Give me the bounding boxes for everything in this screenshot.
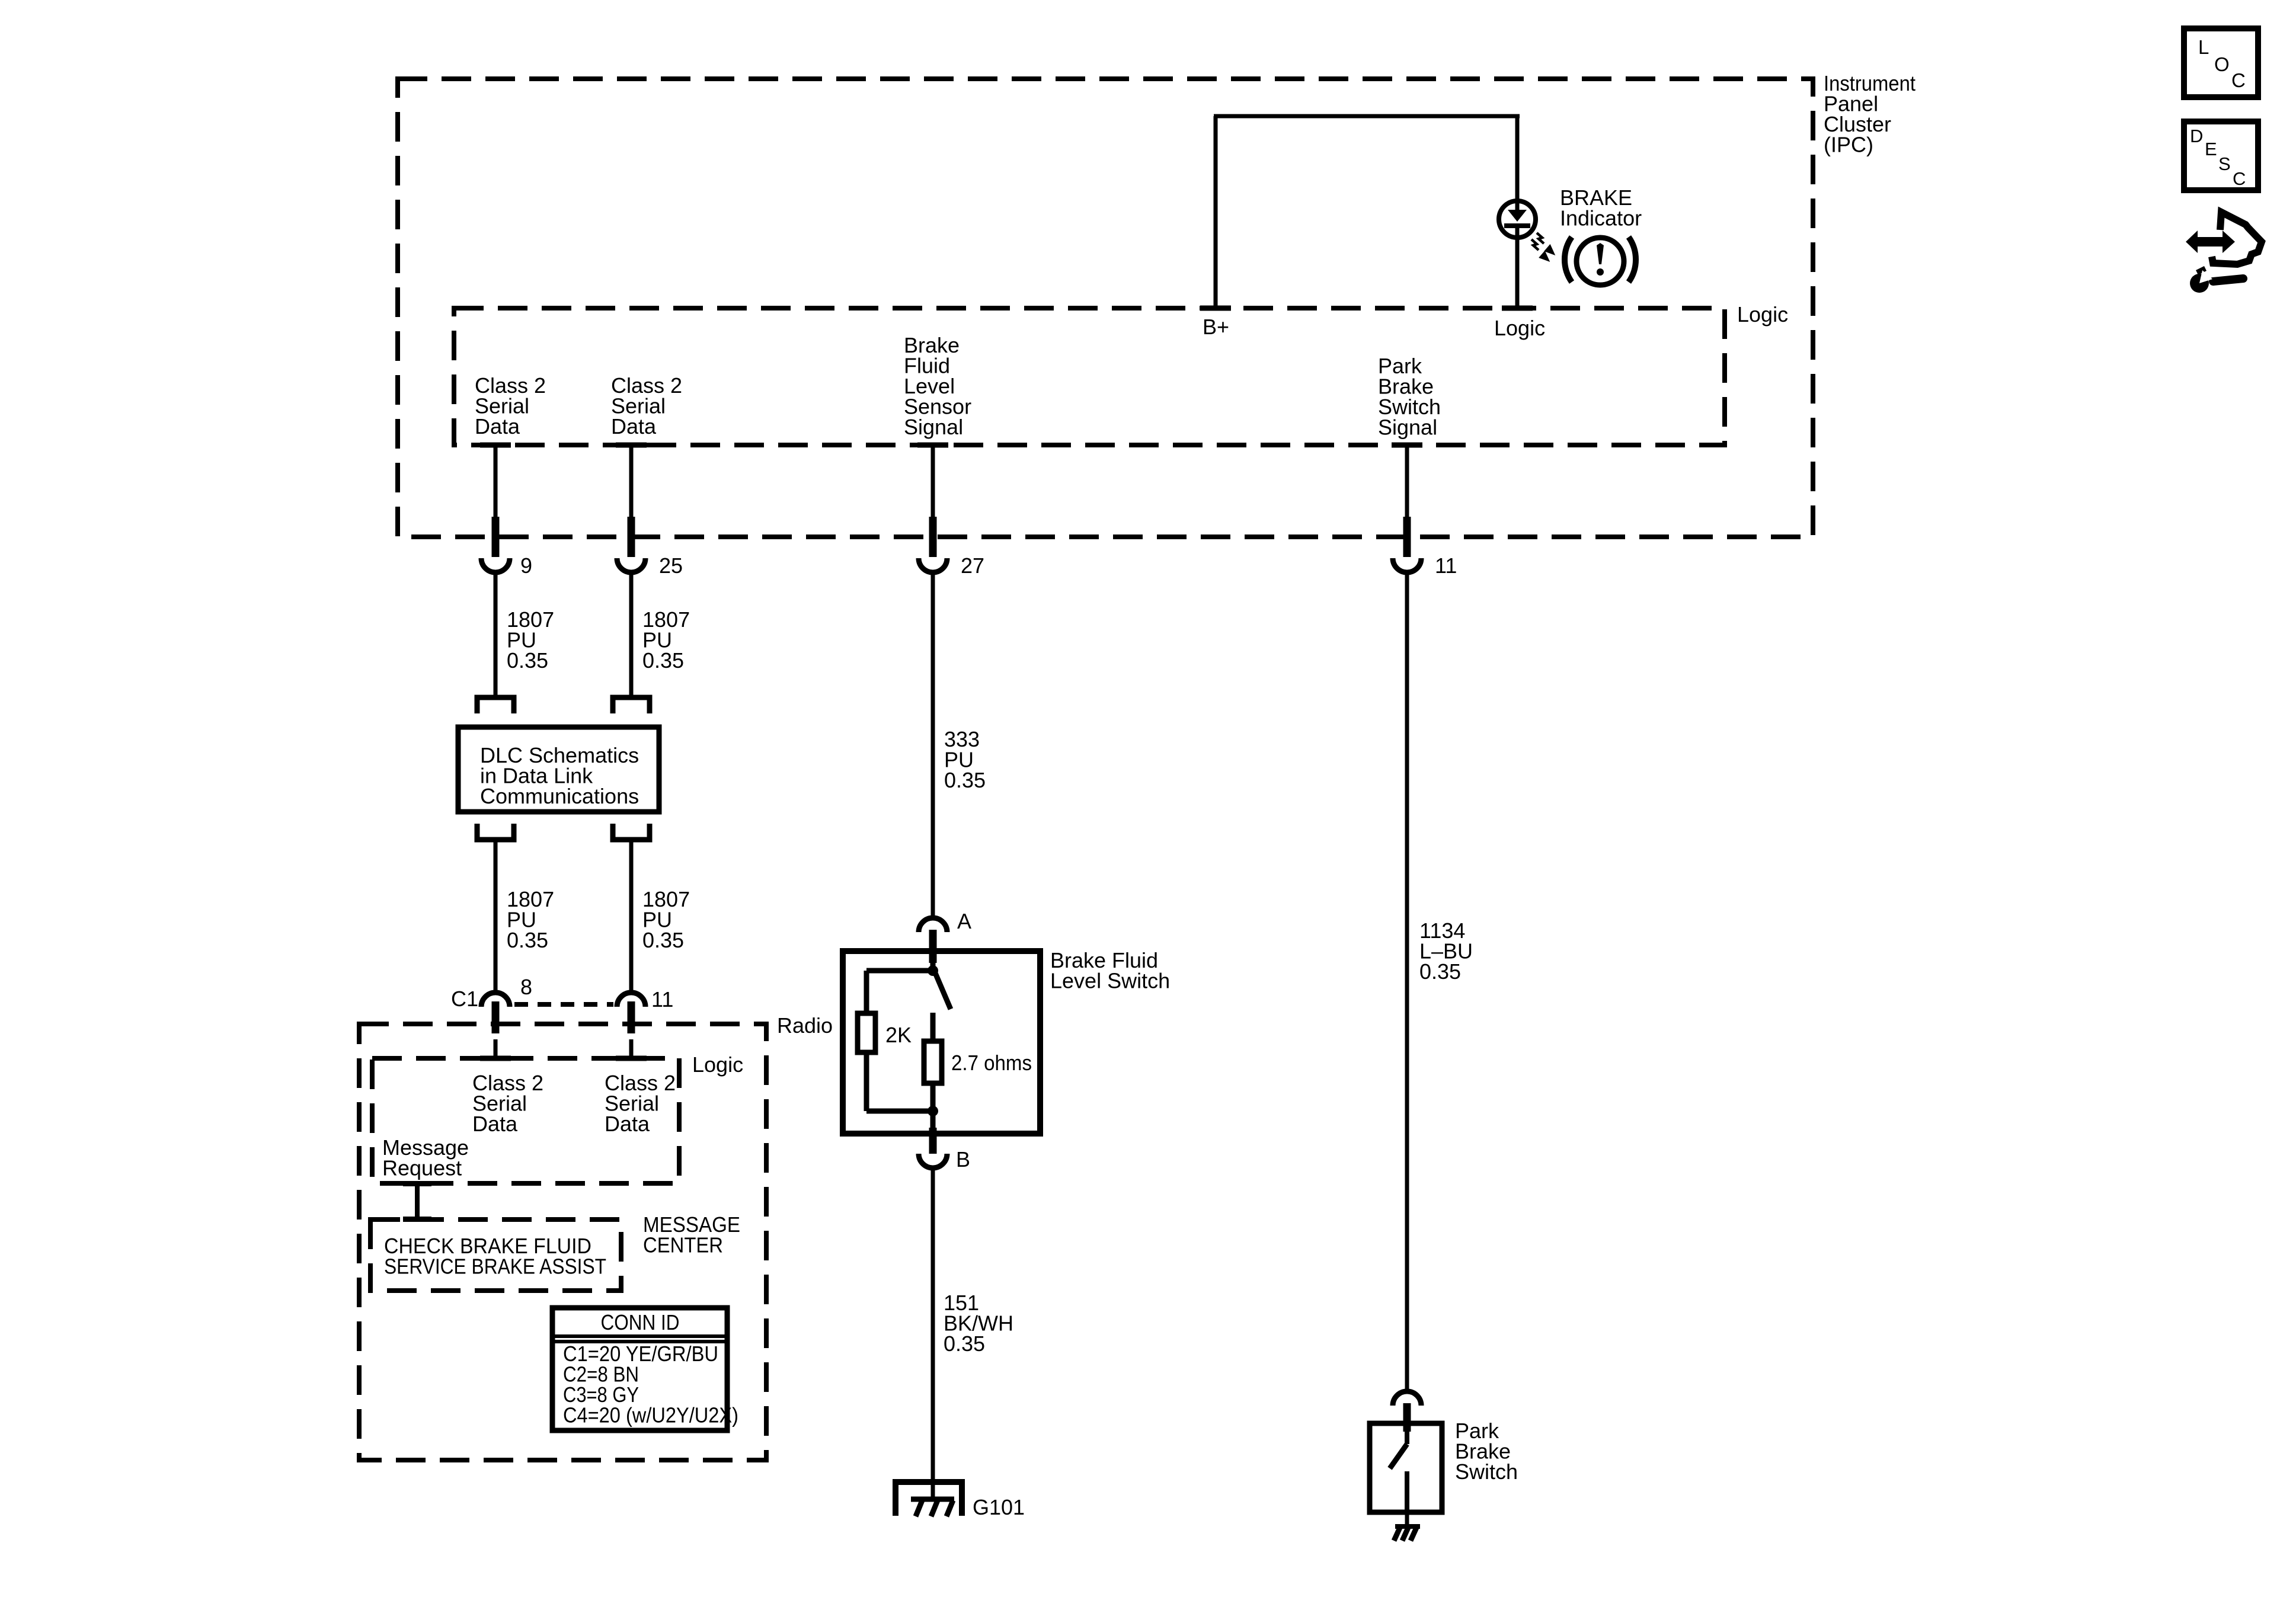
- wire: center branch lower: [930, 1083, 936, 1111]
- svg-text:11: 11: [651, 987, 673, 1012]
- wire: left branch below 2K: [864, 1052, 869, 1111]
- svg-text:E: E: [2205, 139, 2217, 159]
- svg-text:Communications: Communications: [480, 784, 639, 808]
- wire: indicator drop lower: [1515, 236, 1520, 308]
- label: 2K: [885, 1023, 912, 1047]
- stub: pin 8 into Radio: [492, 1001, 500, 1033]
- svg-text:C1: C1: [451, 987, 478, 1011]
- connector cup: IPC pin 25: [617, 558, 645, 572]
- svg-text:0.35: 0.35: [944, 768, 986, 792]
- svg-text:0.35: 0.35: [507, 928, 548, 952]
- svg-text:CENTER: CENTER: [643, 1233, 723, 1257]
- label: circuit 1807 PU 0.35 upper x=1065: [642, 607, 690, 673]
- connector staple below DLC x=836: [477, 824, 514, 840]
- wire: pin 11 inside radio: [629, 1039, 634, 1058]
- label: pin A: [957, 909, 971, 933]
- label: 2.7 ohms: [951, 1051, 1032, 1075]
- resistor 2K: [858, 1013, 875, 1052]
- DLC Schematics reference box: [458, 727, 659, 812]
- connector arch: radio C1 pin 11: [617, 993, 645, 1007]
- svg-text:2K: 2K: [885, 1023, 912, 1047]
- svg-text:Data: Data: [605, 1112, 650, 1136]
- label: Class 2 Serial Data (radio left): [472, 1071, 543, 1136]
- wire: 1807 PU lower segment x=1065: [629, 840, 634, 991]
- svg-text:0.35: 0.35: [642, 928, 684, 952]
- label: BRAKE Indicator: [1560, 185, 1642, 231]
- svg-text:D: D: [2190, 126, 2203, 146]
- svg-text:A: A: [957, 909, 971, 933]
- label: pin 25: [659, 553, 683, 578]
- svg-text:Data: Data: [611, 414, 657, 438]
- svg-text:9: 9: [520, 553, 532, 578]
- wire: park switch lower contact: [1405, 1471, 1409, 1510]
- svg-text:C4=20 (w/U2Y/U2X): C4=20 (w/U2Y/U2X): [563, 1403, 738, 1427]
- label: circuit 333 PU 0.35: [944, 727, 986, 792]
- label: Radio: [777, 1013, 833, 1038]
- Radio module box: [359, 1024, 766, 1460]
- svg-text:C: C: [2233, 168, 2246, 189]
- wire: 151 BK/WH segment: [931, 1169, 935, 1497]
- label: G101: [973, 1495, 1025, 1519]
- label: Logic (radio): [692, 1052, 743, 1077]
- connector staple above DLC x=836: [477, 697, 514, 713]
- switch blade: brake fluid level switch: [935, 973, 951, 1009]
- wire: indicator drop upper: [1515, 116, 1520, 202]
- label: Logic net (indicator): [1494, 316, 1545, 340]
- wire: park switch upper stub: [1405, 1426, 1409, 1444]
- connector staple below DLC x=1065: [613, 824, 650, 840]
- label: pin 11 (radio): [651, 987, 673, 1012]
- connector cup: IPC pin 11: [1393, 558, 1421, 572]
- svg-text:Logic: Logic: [1494, 316, 1545, 340]
- connector arch: radio C1 pin 8: [481, 993, 510, 1007]
- svg-text:11: 11: [1435, 553, 1457, 578]
- chassis ground: park brake switch: [1394, 1526, 1420, 1541]
- label: B+ net: [1203, 315, 1229, 339]
- connector arch: park brake switch pin: [1393, 1391, 1421, 1406]
- svg-text:O: O: [2214, 53, 2230, 75]
- Radio Logic box: [372, 1058, 679, 1183]
- label: pin 11: [1435, 553, 1457, 578]
- label: Logic (IPC logic box): [1737, 302, 1788, 327]
- label: CONN ID rows: [563, 1342, 738, 1427]
- label: Class 2 Serial Data (pin 9): [475, 373, 546, 438]
- svg-text:0.35: 0.35: [507, 648, 548, 673]
- svg-text:0.35: 0.35: [642, 648, 684, 673]
- terminal bar: logic box pin wire x=1065: [616, 443, 647, 448]
- IPC internal Logic box: [454, 308, 1725, 445]
- svg-text:Logic: Logic: [692, 1052, 743, 1077]
- svg-text:Logic: Logic: [1737, 302, 1788, 327]
- svg-text:Signal: Signal: [1378, 415, 1437, 440]
- connector arch: brake fluid switch pin A: [919, 918, 947, 932]
- svg-text:0.35: 0.35: [944, 1331, 985, 1356]
- DESC icon box: [2184, 121, 2258, 190]
- connector cup: pin B: [919, 1154, 947, 1168]
- svg-text:B: B: [956, 1147, 970, 1172]
- label: circuit 1807 PU 0.35 lower x=836: [507, 887, 554, 952]
- label: pin 27: [961, 553, 984, 578]
- connector cup: IPC pin 27: [919, 558, 947, 572]
- LED lamp: BRAKE indicator bulb: [1499, 201, 1536, 238]
- switch blade: park brake switch: [1390, 1444, 1407, 1468]
- wire: pin 8 inside radio: [494, 1039, 498, 1058]
- wire: left branch horizontal: [866, 968, 933, 974]
- wire: switch common from pin A: [930, 954, 936, 971]
- wire: to pin B: [930, 1111, 936, 1131]
- wire: left branch bottom horizontal: [866, 1109, 933, 1114]
- label: C1: [451, 987, 478, 1011]
- stub: pin 11 into Radio: [628, 1001, 635, 1033]
- svg-text:L: L: [2198, 36, 2209, 58]
- terminal bar: logic box pin wire x=836: [480, 443, 511, 448]
- light emission arrows from LED: [1531, 233, 1553, 260]
- label: pin B: [956, 1147, 970, 1172]
- stub: pin 25 through IPC border: [628, 517, 635, 557]
- wire: pin 25 inside IPC: [629, 445, 634, 517]
- Brake Fluid Level Switch box: [843, 951, 1040, 1134]
- wire: 1807 PU upper segment x=1065: [629, 574, 634, 697]
- junction node: switch top: [928, 965, 938, 976]
- svg-text:Radio: Radio: [777, 1013, 833, 1038]
- svg-text:Switch: Switch: [1455, 1459, 1518, 1484]
- label: Brake Fluid Level Sensor Signal: [904, 333, 971, 439]
- wire: 1807 PU upper segment x=836: [494, 574, 498, 697]
- data link / diagnostic icon (arrow, vehicle, wrench): [2186, 212, 2262, 293]
- wire: pin 11 inside IPC: [1405, 445, 1409, 517]
- wire: center branch upper: [930, 1013, 936, 1041]
- label: Class 2 Serial Data (pin 25): [611, 373, 682, 438]
- terminal bar: pin 8 at radio logic: [480, 1056, 511, 1061]
- resistor 2.7 ohms: [924, 1041, 942, 1083]
- wire: top horizontal B+ to indicator: [1214, 114, 1520, 119]
- dashed connector link C1 pin8 to pin11: [514, 1002, 613, 1007]
- LOC icon box: [2184, 28, 2258, 97]
- stub: pin 9 through IPC border: [492, 517, 500, 557]
- svg-text:S: S: [2218, 153, 2231, 174]
- wire: pin 27 inside IPC: [931, 445, 935, 517]
- svg-text:Request: Request: [382, 1156, 462, 1180]
- junction node: switch bottom: [928, 1106, 938, 1116]
- terminal bar: pin 11 at radio logic: [616, 1056, 647, 1061]
- stub: into park brake switch: [1403, 1403, 1411, 1432]
- link: message request to message center: [403, 1181, 431, 1222]
- wire: 1134 L-BU segment: [1405, 574, 1409, 1390]
- label: CHECK BRAKE FLUID / SERVICE BRAKE ASSIST: [384, 1234, 606, 1279]
- svg-text:Indicator: Indicator: [1560, 206, 1642, 231]
- label: Park Brake Switch Signal: [1378, 354, 1441, 440]
- wire: 1807 PU lower segment x=836: [494, 840, 498, 991]
- svg-text:2.7 ohms: 2.7 ohms: [951, 1051, 1032, 1075]
- wire: left branch down to 2K: [864, 971, 869, 1013]
- wire: B+ riser: [1214, 116, 1218, 308]
- label: Brake Fluid Level Switch: [1050, 948, 1170, 993]
- svg-text:Data: Data: [472, 1112, 518, 1136]
- label: circuit 151 BK/WH 0.35: [944, 1291, 1013, 1356]
- stub: pin 11 through IPC border: [1403, 517, 1411, 557]
- label: MESSAGE CENTER: [643, 1212, 740, 1257]
- label: Park Brake Switch: [1455, 1419, 1518, 1484]
- connector staple above DLC x=1065: [613, 697, 650, 713]
- label: DLC Schematics in Data Link Communications: [480, 743, 639, 808]
- label: circuit 1134 L-BU 0.35: [1419, 918, 1473, 984]
- svg-text:C: C: [2231, 69, 2246, 91]
- label: Class 2 Serial Data (radio right): [605, 1071, 676, 1136]
- label: Instrument Panel Cluster (IPC): [1824, 71, 1916, 157]
- stub: pin A into switch: [929, 930, 937, 963]
- svg-text:0.35: 0.35: [1419, 959, 1461, 984]
- svg-text:25: 25: [659, 553, 683, 578]
- terminal bar: logic box pin wire x=1574: [917, 443, 948, 448]
- svg-text:SERVICE BRAKE ASSIST: SERVICE BRAKE ASSIST: [384, 1254, 606, 1279]
- svg-text:(IPC): (IPC): [1824, 133, 1873, 157]
- label: circuit 1807 PU 0.35 lower x=1065: [642, 887, 690, 952]
- terminal bar: indicator logic at logic box: [1502, 306, 1533, 311]
- wire: 333 PU segment: [931, 574, 935, 916]
- wire: pin 9 inside IPC: [494, 445, 498, 517]
- terminal bar: B+ at logic box: [1200, 306, 1231, 311]
- svg-text:Data: Data: [475, 414, 520, 438]
- stub: pin B out of switch: [929, 1128, 937, 1154]
- wire: park switch to ground: [1405, 1512, 1409, 1526]
- svg-text:Signal: Signal: [904, 415, 963, 439]
- Instrument Panel Cluster (IPC) module box: [398, 79, 1813, 537]
- label: circuit 1807 PU 0.35 upper x=836: [507, 607, 554, 673]
- label: pin 8: [520, 975, 532, 999]
- brake warning telltale icon ((!)): [1565, 237, 1636, 285]
- MESSAGE CENTER box: [370, 1219, 621, 1291]
- svg-text:Level Switch: Level Switch: [1050, 969, 1170, 993]
- label: pin 9: [520, 553, 532, 578]
- connector cup: IPC pin 9: [481, 558, 510, 572]
- svg-text:G101: G101: [973, 1495, 1025, 1519]
- stub: pin 27 through IPC border: [929, 517, 937, 557]
- label: CONN ID header: [601, 1310, 680, 1334]
- Park Brake Switch box: [1370, 1423, 1442, 1512]
- CONN ID table: [552, 1308, 727, 1430]
- ground G101: [896, 1482, 962, 1516]
- svg-text:8: 8: [520, 975, 532, 999]
- svg-text:B+: B+: [1203, 315, 1229, 339]
- terminal bar: logic box pin wire x=2374: [1392, 443, 1422, 448]
- svg-text:CONN ID: CONN ID: [601, 1310, 680, 1334]
- label: Message Request: [382, 1135, 469, 1180]
- svg-text:27: 27: [961, 553, 984, 578]
